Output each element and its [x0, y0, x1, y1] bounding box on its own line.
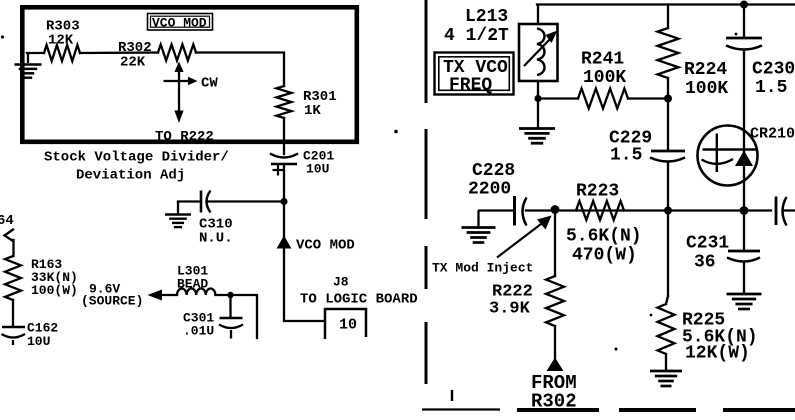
- border: bottom dashed line: [422, 390, 795, 410]
- resistor R301: [277, 86, 337, 119]
- wire: [284, 249, 325, 322]
- capacitor C162: [2, 321, 59, 350]
- wire: [628, 97, 668, 99]
- capacitor C310 (N.U.): [199, 191, 233, 247]
- svg-text:(SOURCE): (SOURCE): [81, 294, 143, 309]
- capacitor C201 (10U polarized): [270, 149, 334, 177]
- svg-text:5.6K(N): 5.6K(N): [566, 227, 642, 247]
- node: junction L213/R241: [534, 95, 541, 102]
- wire: [667, 163, 669, 211]
- wire: [554, 326, 556, 359]
- node: junction top rail / C230: [740, 1, 748, 9]
- node: junction R224/R241: [664, 95, 672, 103]
- resistor R302 (deviation pot): [118, 40, 196, 71]
- wire: [743, 262, 745, 293]
- svg-text:TO LOGIC BOARD: TO LOGIC BOARD: [300, 292, 418, 308]
- speck: [650, 314, 653, 317]
- wire: [196, 53, 284, 87]
- resistor R224: [658, 28, 729, 99]
- svg-text:100K: 100K: [583, 68, 626, 88]
- svg-text:R302: R302: [531, 391, 577, 413]
- VCO MOD label box: [148, 14, 213, 31]
- wire: [667, 5, 669, 29]
- svg-text:1K: 1K: [304, 103, 321, 119]
- svg-text:64: 64: [0, 213, 14, 229]
- resistor R241: [578, 50, 628, 109]
- wire: [12, 300, 14, 326]
- resistor R303: [44, 19, 80, 62]
- svg-text:R223: R223: [576, 182, 619, 202]
- svg-text:10: 10: [339, 317, 357, 334]
- inductor L301 (BEAD): [177, 264, 215, 296]
- ground (R303 left): [15, 53, 42, 78]
- wire: [743, 51, 745, 211]
- svg-text:10U: 10U: [27, 334, 50, 349]
- wire: [80, 51, 158, 54]
- wire: [667, 211, 669, 297]
- node: junction C310/C201: [280, 198, 287, 205]
- node: junction L301/C301: [227, 292, 233, 298]
- svg-text:R241: R241: [581, 50, 624, 70]
- svg-text:TX Mod Inject: TX Mod Inject: [432, 261, 533, 276]
- svg-text:L213: L213: [465, 7, 508, 27]
- node 9.6V (SOURCE) arrow: [81, 282, 177, 309]
- wire: [665, 354, 667, 370]
- svg-text:VCO MOD: VCO MOD: [152, 15, 207, 30]
- TX VCO FREQ label box: [435, 53, 514, 96]
- wire: [537, 81, 539, 128]
- svg-text:4 1/2T: 4 1/2T: [444, 26, 509, 46]
- svg-text:2200: 2200: [468, 180, 511, 200]
- svg-text:CR210: CR210: [750, 126, 795, 143]
- capacitor C301 (.01U): [183, 295, 243, 339]
- svg-text:22K: 22K: [120, 55, 146, 71]
- wire: [283, 118, 285, 154]
- resistor R222: [489, 276, 564, 326]
- wire: [538, 97, 578, 99]
- node FROM R302 (arrow): [531, 358, 577, 413]
- node VCO MOD (arrow): [277, 236, 355, 254]
- svg-text:100(W): 100(W): [31, 283, 78, 298]
- wire: [554, 210, 556, 276]
- ground (C231): [727, 294, 762, 309]
- svg-text:3.9K: 3.9K: [489, 300, 531, 319]
- wire: [27, 52, 44, 54]
- capacitor C228 (2200): [468, 161, 527, 226]
- svg-text:BEAD: BEAD: [177, 277, 208, 292]
- speck: [615, 348, 618, 351]
- svg-text:C231: C231: [686, 234, 729, 254]
- capacitor C231 (36): [686, 234, 760, 273]
- svg-text:36: 36: [694, 253, 716, 273]
- svg-text:10U: 10U: [306, 162, 329, 177]
- wire (clipped arrow): [5, 230, 14, 257]
- svg-text:12K(W): 12K(W): [685, 344, 750, 364]
- svg-text:N.U.: N.U.: [199, 231, 233, 247]
- svg-text:Deviation Adj: Deviation Adj: [76, 168, 185, 184]
- diode CR210 (varactor): [698, 126, 795, 186]
- svg-text:470(W): 470(W): [572, 246, 637, 266]
- capacitor C230 (1.5): [726, 38, 795, 98]
- wire: [743, 211, 745, 252]
- svg-text:12K: 12K: [48, 33, 74, 49]
- speck: [394, 130, 398, 134]
- wire: [208, 200, 284, 202]
- svg-text:.01U: .01U: [183, 324, 214, 339]
- speck: [735, 33, 738, 36]
- connector J8 pin 10 (TO LOGIC BOARD): [300, 275, 418, 340]
- pot wiper arrow (TO R222): [155, 62, 218, 146]
- node: junction TX mod inject: [551, 205, 560, 214]
- ground (C228): [462, 211, 496, 243]
- inductor L213 (4 1/2T tunable): [444, 5, 558, 82]
- wire: mid rail: [526, 209, 771, 211]
- ground (R225): [650, 371, 682, 386]
- ground (L213): [519, 129, 555, 144]
- node: junction mid rail/C231: [740, 206, 749, 215]
- box: stock voltage divider outline: [22, 7, 357, 142]
- wire: [178, 200, 199, 202]
- ground (C310): [165, 202, 191, 228]
- svg-text:R224: R224: [684, 60, 727, 80]
- wire: [667, 78, 669, 149]
- svg-text:C230: C230: [752, 60, 795, 80]
- svg-text:J8: J8: [333, 275, 349, 290]
- svg-text:VCO MOD: VCO MOD: [296, 238, 355, 254]
- svg-text:FREQ: FREQ: [449, 76, 492, 96]
- svg-text:100K: 100K: [685, 79, 728, 99]
- wire: [479, 209, 513, 211]
- speck: [1, 35, 4, 38]
- svg-text:1.5: 1.5: [755, 78, 787, 98]
- wire: [743, 5, 745, 38]
- svg-text:1.5: 1.5: [610, 146, 642, 166]
- svg-text:CW: CW: [201, 76, 218, 92]
- svg-text:C228: C228: [472, 161, 515, 181]
- svg-text:TO R222: TO R222: [155, 129, 214, 145]
- capacitor C2xx (clipped at edge): [776, 197, 795, 226]
- wire: [215, 295, 257, 338]
- capacitor C229 (1.5): [609, 129, 685, 166]
- svg-text:Stock Voltage Divider/: Stock Voltage Divider/: [44, 150, 229, 166]
- node TX Mod Inject (arrow): [432, 216, 552, 276]
- node: junction mid rail/R225: [664, 207, 672, 215]
- resistor R163: [5, 256, 78, 300]
- resistor R225: [658, 304, 758, 364]
- resistor R223: [566, 182, 642, 266]
- wire: [283, 164, 285, 237]
- wire: top rail: [537, 3, 795, 5]
- border: dashed vertical separator: [425, 0, 428, 384]
